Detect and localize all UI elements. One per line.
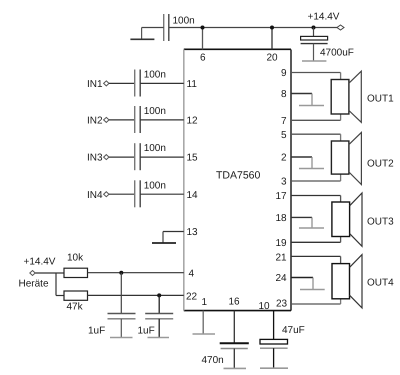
pin 6 wire bbox=[200, 28, 206, 64]
wire 47k to pin 22 bbox=[88, 292, 198, 303]
ground (pin 2) bbox=[299, 157, 324, 169]
svg-text:OUT4: OUT4 bbox=[367, 278, 394, 289]
svg-text:24: 24 bbox=[276, 273, 288, 284]
wire pin 9 to speaker OUT1 bbox=[281, 68, 341, 80]
ground (top-left) bbox=[130, 28, 154, 40]
svg-text:21: 21 bbox=[276, 253, 288, 264]
svg-text:1uF: 1uF bbox=[138, 326, 155, 337]
capacitor 100n (IN4) bbox=[135, 180, 166, 207]
wire IN4 to cap bbox=[109, 193, 135, 195]
capacitor 47uF (electrolytic) bbox=[260, 325, 305, 368]
capacitor 1uF (second) bbox=[138, 295, 174, 337]
svg-text:12: 12 bbox=[187, 116, 199, 127]
wire pin 18 bbox=[276, 213, 313, 224]
wire IN1 to cap bbox=[109, 82, 135, 84]
wire cap to pin 12 bbox=[140, 116, 198, 127]
node junction at 4700uF bbox=[312, 26, 316, 30]
capacitor C-top 100n bbox=[142, 14, 195, 41]
wire pin 19 to speaker OUT3 bbox=[276, 237, 341, 250]
node IN3 terminal bbox=[87, 153, 109, 164]
ground (pin 13) bbox=[152, 232, 176, 244]
wire cap to pin 15 bbox=[140, 153, 198, 164]
node IN4 terminal bbox=[87, 190, 109, 201]
svg-text:IN2: IN2 bbox=[87, 116, 103, 127]
svg-text:10: 10 bbox=[259, 301, 271, 312]
resistor 10k bbox=[64, 253, 88, 278]
svg-text:20: 20 bbox=[267, 53, 279, 64]
wire pin 17 to speaker OUT3 bbox=[276, 191, 341, 202]
svg-text:6: 6 bbox=[200, 53, 206, 64]
svg-text:100n: 100n bbox=[144, 180, 166, 191]
svg-text:+14.4V: +14.4V bbox=[24, 257, 56, 268]
wire pin 3 to speaker OUT2 bbox=[281, 174, 341, 188]
svg-text:19: 19 bbox=[276, 238, 288, 249]
svg-text:8: 8 bbox=[281, 89, 287, 100]
svg-text:47k: 47k bbox=[67, 302, 84, 313]
speaker OUT3 bbox=[332, 193, 394, 246]
svg-text:IN3: IN3 bbox=[87, 153, 103, 164]
op-amp U1 TDA7560 body bbox=[184, 49, 291, 310]
svg-text:4700uF: 4700uF bbox=[320, 48, 354, 59]
resistor 47k bbox=[64, 291, 88, 313]
wire pin 24 bbox=[276, 273, 314, 284]
svg-text:11: 11 bbox=[187, 79, 198, 90]
wire cap to pin 14 bbox=[140, 190, 198, 201]
svg-text:470n: 470n bbox=[202, 355, 224, 366]
ground (pin 1) bbox=[193, 333, 216, 335]
capacitor 1uF (first) bbox=[88, 273, 136, 338]
pin 16 stub bbox=[229, 297, 241, 344]
svg-text:OUT2: OUT2 bbox=[367, 159, 394, 170]
svg-text:10k: 10k bbox=[67, 253, 84, 264]
svg-text:2: 2 bbox=[281, 153, 287, 164]
wire 10k to pin 4 bbox=[88, 269, 195, 280]
ground (pin 18) bbox=[299, 217, 324, 228]
speaker OUT2 bbox=[331, 132, 394, 184]
svg-text:5: 5 bbox=[281, 130, 287, 141]
wire pin 21 to speaker OUT4 bbox=[276, 253, 341, 264]
capacitor 100n (IN1) bbox=[135, 70, 166, 97]
svg-text:7: 7 bbox=[281, 116, 287, 127]
svg-text:100n: 100n bbox=[173, 16, 195, 27]
wire pin 13 bbox=[163, 227, 198, 238]
wire pin 7 to speaker OUT1 bbox=[281, 114, 341, 127]
svg-text:14: 14 bbox=[187, 190, 199, 201]
capacitor C 4700uF (electrolytic) bbox=[301, 28, 354, 62]
wire pin 5 to speaker OUT2 bbox=[281, 130, 341, 141]
capacitor 100n (IN2) bbox=[135, 106, 166, 133]
node junction on pin4 wire bbox=[119, 271, 123, 275]
pin 20 wire bbox=[267, 28, 279, 64]
speaker OUT1 bbox=[331, 71, 394, 122]
wire top supply rail bbox=[169, 27, 341, 29]
node +14.4V / Heräte terminal (bottom-left) bbox=[19, 257, 56, 290]
svg-text:17: 17 bbox=[276, 191, 288, 202]
svg-text:1: 1 bbox=[202, 297, 208, 308]
svg-text:100n: 100n bbox=[144, 143, 166, 154]
ground (first 1uF) bbox=[110, 337, 133, 339]
svg-text:1uF: 1uF bbox=[88, 326, 105, 337]
svg-text:3: 3 bbox=[281, 177, 287, 188]
wire cap to pin 11 bbox=[140, 79, 197, 90]
ground (second 1uF) bbox=[148, 337, 170, 339]
svg-text:100n: 100n bbox=[144, 70, 166, 81]
node junction at pin20 bbox=[270, 26, 274, 30]
svg-text:23: 23 bbox=[276, 298, 288, 309]
wire pin 23 to speaker OUT4 bbox=[276, 298, 341, 309]
wire branch down to 47k bbox=[56, 273, 64, 296]
wire pin 8 bbox=[281, 89, 312, 100]
svg-text:15: 15 bbox=[187, 153, 199, 164]
svg-text:OUT1: OUT1 bbox=[367, 94, 394, 105]
ground (below 4700uF) bbox=[302, 60, 326, 62]
node +14.4V terminal (top) bbox=[308, 12, 345, 31]
svg-text:IN1: IN1 bbox=[87, 79, 103, 90]
svg-text:18: 18 bbox=[276, 213, 288, 224]
pin 10 stub bbox=[259, 301, 274, 339]
svg-text:16: 16 bbox=[229, 297, 241, 308]
svg-text:22: 22 bbox=[186, 292, 198, 303]
svg-text:+14.4V: +14.4V bbox=[308, 12, 340, 23]
svg-text:100n: 100n bbox=[144, 106, 166, 117]
ground (47uF) bbox=[260, 367, 288, 369]
ground (pin 24) bbox=[300, 278, 325, 290]
svg-text:47uF: 47uF bbox=[282, 325, 305, 336]
node IN2 terminal bbox=[87, 116, 109, 127]
wire IN2 to cap bbox=[109, 119, 135, 121]
capacitor 100n (IN3) bbox=[135, 143, 166, 170]
wire pin 2 bbox=[281, 153, 312, 164]
svg-text:4: 4 bbox=[189, 269, 195, 280]
node junction at pin6 bbox=[201, 26, 205, 30]
svg-text:13: 13 bbox=[187, 227, 199, 238]
node junction on pin22 wire bbox=[157, 293, 161, 297]
wire terminal to 10k bbox=[35, 272, 64, 274]
ground (pin 8) bbox=[299, 94, 324, 106]
svg-text:OUT3: OUT3 bbox=[367, 217, 394, 228]
speaker OUT4 bbox=[332, 255, 394, 308]
ground (470n) bbox=[224, 367, 247, 369]
pin 1 stub bbox=[202, 297, 208, 334]
node IN1 terminal bbox=[87, 79, 109, 90]
svg-text:IN4: IN4 bbox=[87, 190, 103, 201]
svg-text:9: 9 bbox=[281, 68, 287, 79]
svg-text:TDA7560: TDA7560 bbox=[216, 170, 261, 182]
capacitor 470n bbox=[202, 343, 249, 368]
wire IN3 to cap bbox=[109, 156, 135, 158]
svg-text:Heräte: Heräte bbox=[19, 279, 49, 290]
